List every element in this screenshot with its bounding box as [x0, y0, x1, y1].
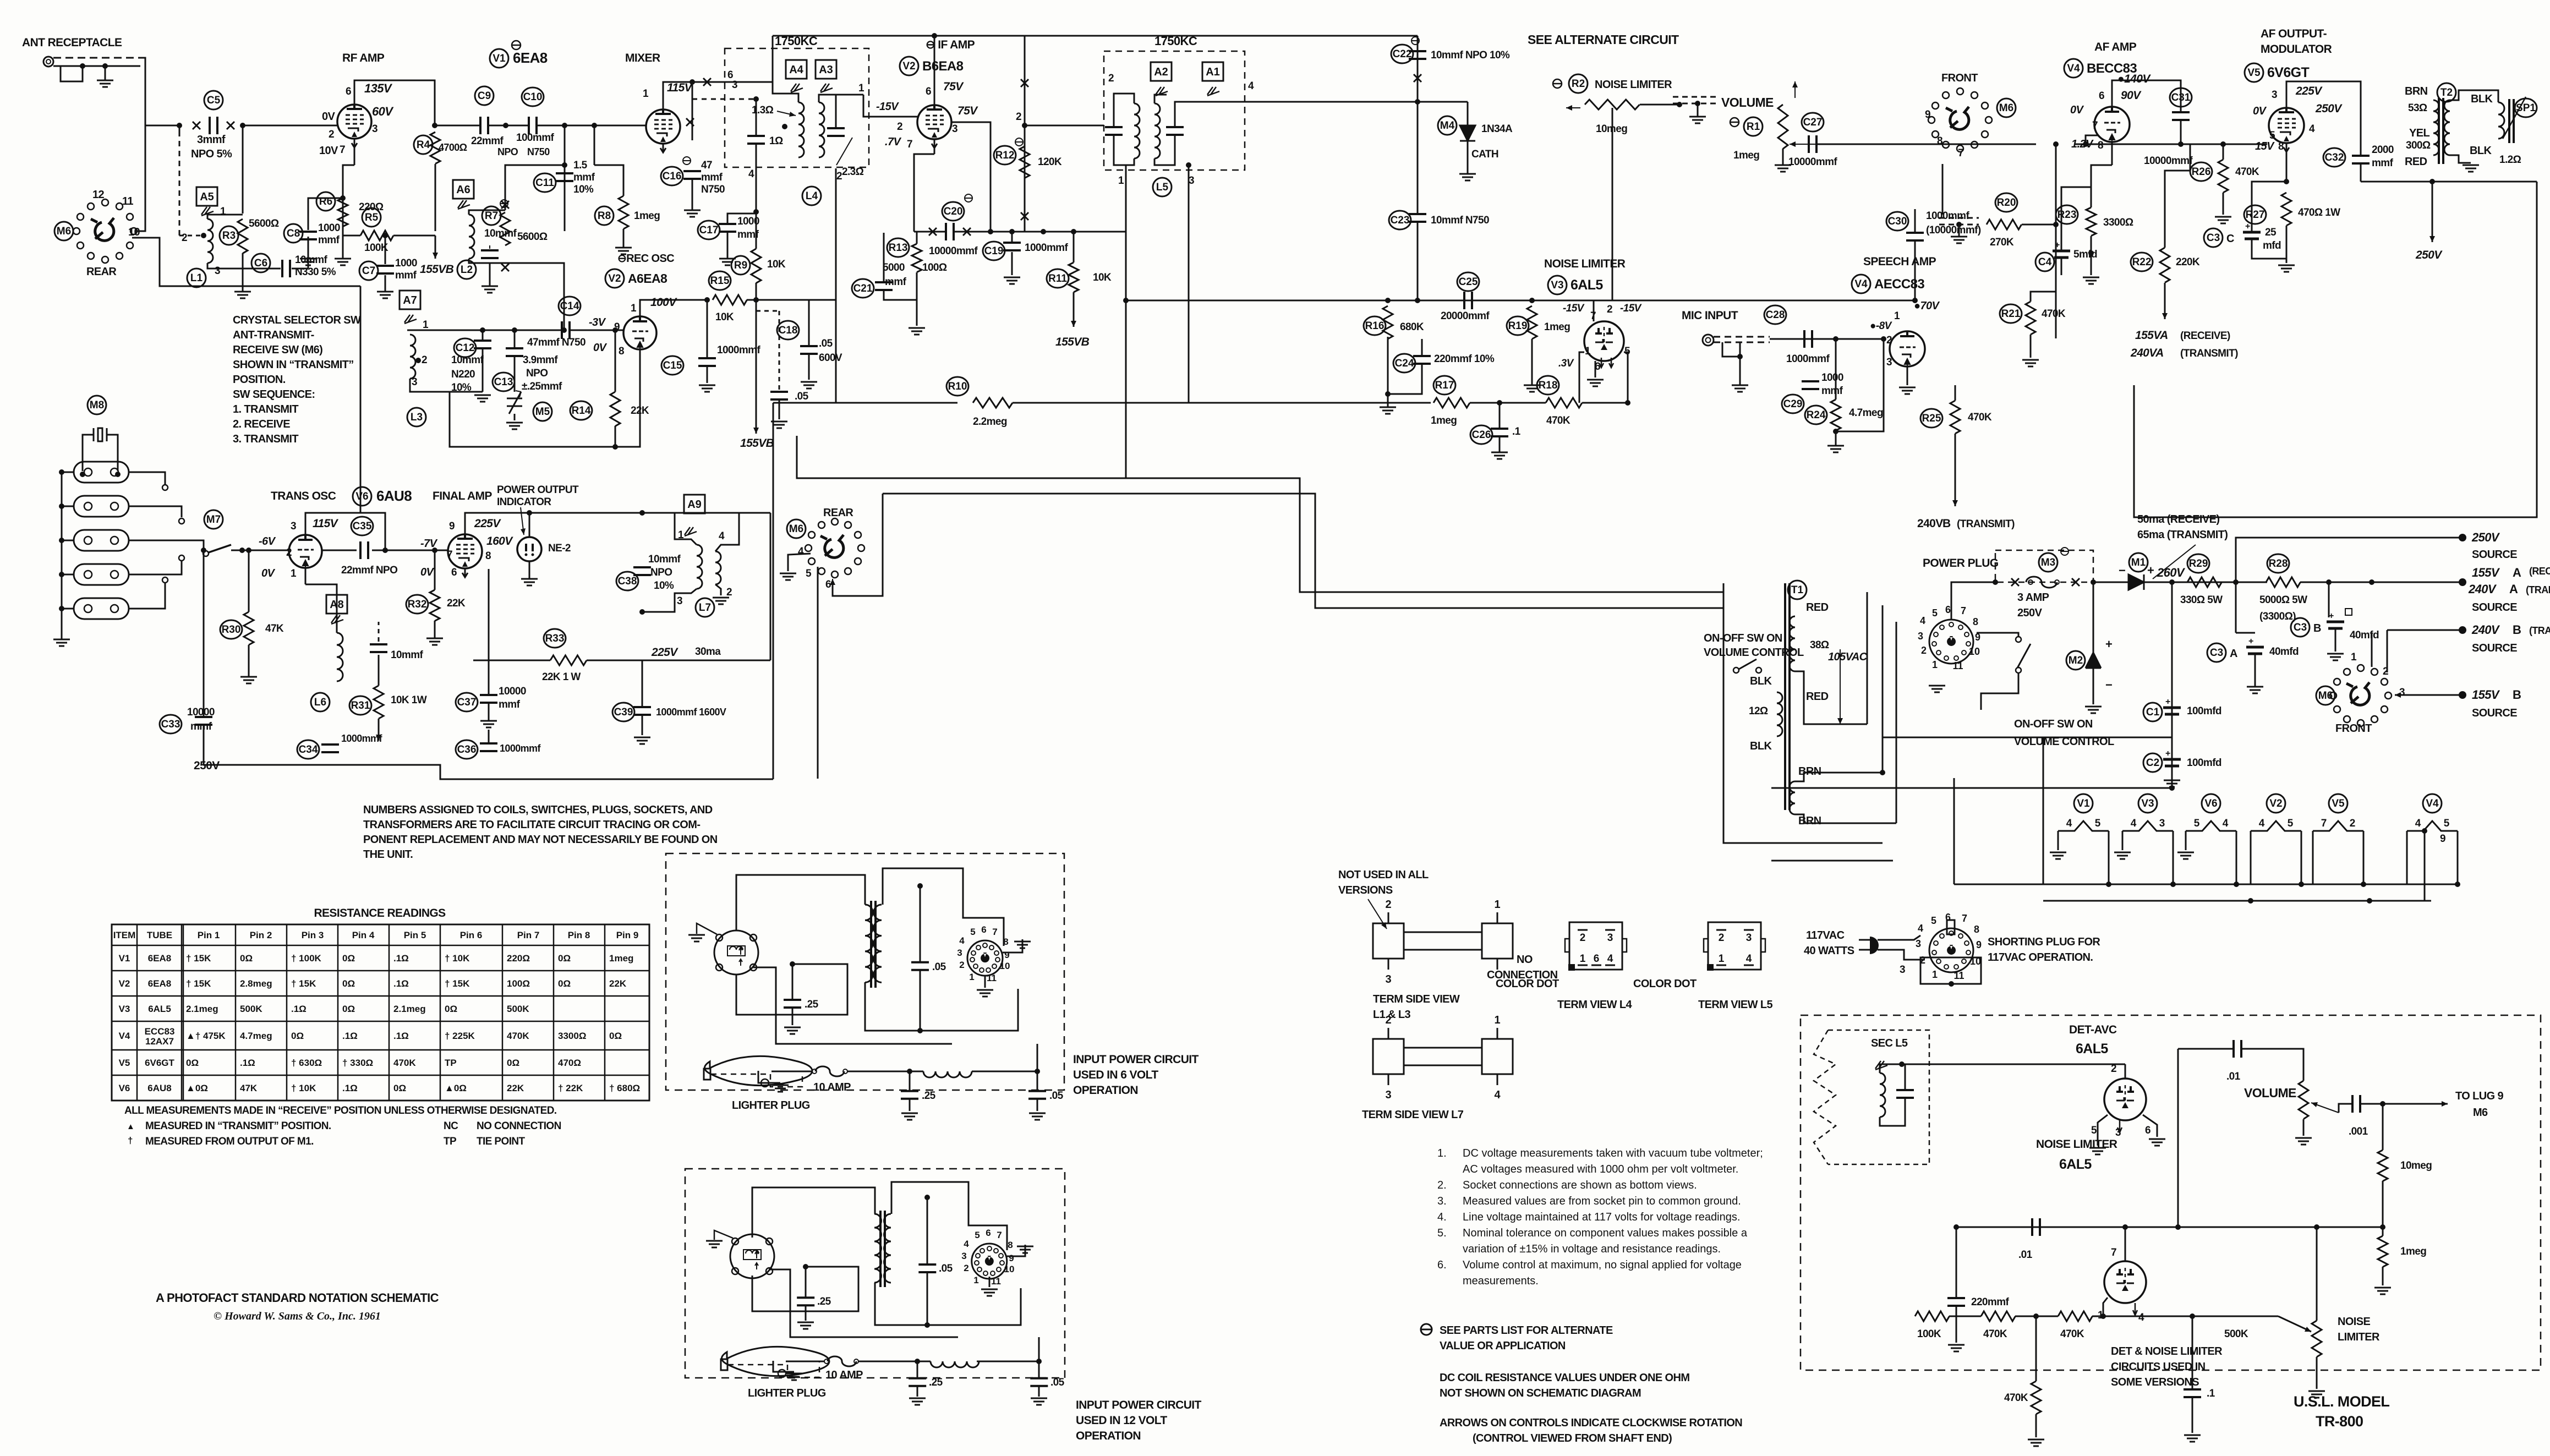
- svg-text:Pin 1: Pin 1: [198, 930, 220, 940]
- capacitor C20 label: [942, 202, 964, 221]
- fuse M3 label: [2039, 553, 2057, 572]
- capacitor C8 label: [284, 224, 303, 243]
- svg-text:10mmf: 10mmf: [391, 649, 424, 661]
- svg-text:0Ω: 0Ω: [393, 1083, 406, 1093]
- svg-text:.05: .05: [1049, 1090, 1064, 1102]
- svg-text:ON-OFF SW ON: ON-OFF SW ON: [1704, 632, 1782, 644]
- coil L1: [207, 219, 213, 263]
- svg-text:M6: M6: [2473, 1107, 2488, 1119]
- color dot: [1707, 964, 1714, 971]
- svg-text:-3V: -3V: [589, 316, 606, 329]
- wire crystal left: [62, 574, 74, 576]
- wire vib contact rail: [753, 967, 952, 1044]
- svg-text:3.9mmf: 3.9mmf: [523, 354, 558, 366]
- coil L2 label: [457, 260, 476, 279]
- svg-text:V6: V6: [119, 1083, 130, 1093]
- capacitor .25 lower: [901, 1091, 918, 1099]
- svg-text:20000mmf: 20000mmf: [1441, 310, 1490, 322]
- svg-text:0V: 0V: [2070, 104, 2084, 116]
- svg-text:470K: 470K: [1546, 415, 1571, 426]
- dashed box 1750KC L4: [725, 48, 869, 167]
- svg-text:6AL5: 6AL5: [148, 1004, 171, 1014]
- svg-text:5: 5: [970, 927, 975, 937]
- ground C2: [2164, 780, 2180, 787]
- wire long bus B: [883, 494, 1723, 608]
- wire C3C top: [2252, 182, 2286, 232]
- svg-text:C32: C32: [2325, 152, 2344, 163]
- svg-text:MEASURED IN “TRANSMIT” POSITIO: MEASURED IN “TRANSMIT” POSITION.: [145, 1120, 331, 1132]
- adjust arrow A6: [458, 200, 470, 209]
- tube V1 label: [490, 49, 508, 68]
- svg-text:SEC L5: SEC L5: [1871, 1037, 1908, 1049]
- svg-text:mmf: mmf: [499, 699, 521, 710]
- ground M4: [1459, 174, 1476, 180]
- svg-text:NO: NO: [1517, 954, 1533, 966]
- resistor R10 2.2meg: [973, 398, 1013, 408]
- svg-text:6: 6: [2145, 1125, 2150, 1136]
- capacitor C33 10000mmf: [195, 717, 212, 725]
- arrow contact 6: [832, 579, 833, 592]
- svg-text:M5: M5: [535, 406, 550, 418]
- wire grid tap V4B: [2086, 135, 2098, 144]
- svg-text:SOURCE: SOURCE: [2472, 601, 2517, 614]
- svg-text:160V: 160V: [486, 535, 513, 548]
- svg-text:22K: 22K: [447, 598, 466, 609]
- wire M8 right: [114, 435, 118, 471]
- adjust arrow A8: [331, 615, 343, 624]
- capacitor sec tank: [1896, 1090, 1914, 1098]
- svg-text:Pin 6: Pin 6: [460, 930, 483, 940]
- svg-text:1: 1: [858, 83, 864, 94]
- svg-text:155V: 155V: [2472, 566, 2500, 579]
- wire antenna lead: [53, 65, 140, 67]
- svg-text:2: 2: [2383, 666, 2388, 677]
- svg-text:R4: R4: [417, 139, 430, 151]
- capacitor .25: [797, 1298, 814, 1305]
- fuse M3 symbol: [2026, 577, 2057, 588]
- svg-text:NOISE LIMITER: NOISE LIMITER: [2036, 1138, 2117, 1151]
- svg-text:5: 5: [806, 568, 812, 579]
- svg-text:2: 2: [959, 960, 964, 970]
- resistor R29 label: [2187, 554, 2209, 573]
- socket power 11pin: [967, 940, 1003, 976]
- svg-text:22mmf: 22mmf: [471, 135, 504, 147]
- svg-text:0V: 0V: [2253, 105, 2267, 117]
- svg-text:.1Ω: .1Ω: [291, 1004, 307, 1014]
- svg-text:9: 9: [1009, 1253, 1014, 1263]
- svg-text:500K: 500K: [2224, 1328, 2248, 1340]
- svg-text:† 15K: † 15K: [445, 978, 470, 989]
- svg-text:C35: C35: [353, 521, 372, 532]
- svg-text:mmf: mmf: [573, 172, 595, 183]
- ground C15: [699, 385, 715, 392]
- svg-text:2: 2: [1385, 899, 1391, 911]
- svg-text:.1Ω: .1Ω: [393, 1031, 409, 1041]
- svg-text:115V: 115V: [667, 81, 693, 94]
- resistor R20 label: [1995, 193, 2017, 212]
- svg-text:V2: V2: [2269, 798, 2282, 809]
- coil L6: [337, 633, 343, 681]
- svg-text:C33: C33: [161, 719, 180, 730]
- wire lighter to fuse: [771, 1071, 812, 1072]
- resistor R13 100: [912, 244, 922, 272]
- svg-text:470K: 470K: [2235, 166, 2259, 178]
- svg-text:C23: C23: [1391, 215, 1410, 226]
- wire R11 top: [1073, 232, 1075, 262]
- svg-text:6: 6: [346, 86, 351, 97]
- resistor R28 label: [2267, 554, 2289, 573]
- coil L4 label: [802, 187, 821, 205]
- svg-text:250V: 250V: [2471, 530, 2500, 544]
- ground .05: [771, 422, 787, 428]
- resistor R31 10K 1W: [374, 686, 384, 719]
- heater V4 filament: [2407, 821, 2458, 831]
- ground M2: [2085, 707, 2102, 713]
- capacitor C9 label: [475, 86, 494, 105]
- arrows V3 cath: [1599, 358, 1613, 368]
- svg-text:M6: M6: [1999, 102, 2013, 114]
- svg-text:SOME VERSIONS: SOME VERSIONS: [2111, 1376, 2199, 1388]
- svg-text:3: 3: [961, 1251, 966, 1261]
- svg-text:LIMITER: LIMITER: [2338, 1331, 2380, 1343]
- svg-text:† 225K: † 225K: [445, 1031, 475, 1041]
- wire C30 top: [1914, 209, 1916, 232]
- misc M5 label: [533, 402, 552, 421]
- resistor R22 label: [2131, 253, 2153, 271]
- tube NL 6AL5: [2104, 1261, 2146, 1303]
- svg-text:BRN: BRN: [1798, 765, 1821, 778]
- svg-text:C20: C20: [944, 206, 963, 217]
- svg-text:0Ω: 0Ω: [558, 953, 571, 964]
- svg-text:4: 4: [964, 1239, 969, 1249]
- svg-text:2: 2: [1108, 73, 1114, 84]
- ground C37: [480, 721, 497, 727]
- svg-text:R18: R18: [1539, 380, 1558, 391]
- svg-text:−: −: [2105, 678, 2112, 692]
- wire R30 top: [248, 550, 250, 612]
- svg-text:RED: RED: [1806, 691, 1829, 703]
- svg-text:C15: C15: [663, 360, 682, 371]
- svg-text:100K: 100K: [1917, 1328, 1941, 1340]
- dashed box det/noise limiter: [1801, 1015, 2541, 1370]
- svg-text:6: 6: [926, 86, 931, 97]
- svg-text:1meg: 1meg: [634, 210, 660, 222]
- svg-text:A6EA8: A6EA8: [628, 271, 667, 286]
- svg-text:R31: R31: [351, 700, 370, 711]
- wire to socket right: [927, 1288, 1021, 1325]
- svg-text:-15V: -15V: [1563, 303, 1585, 314]
- wire down to AVC: [835, 300, 837, 403]
- wire rail 1340: [1883, 737, 2172, 738]
- svg-text:220Ω: 220Ω: [359, 201, 384, 213]
- wire vib gnd lead: [697, 923, 717, 934]
- svg-text:VOLUME: VOLUME: [1721, 95, 1774, 110]
- ground vibrator: [706, 1241, 723, 1247]
- svg-text:10: 10: [1000, 961, 1010, 971]
- svg-text:250V: 250V: [2017, 607, 2043, 619]
- svg-text:NPO: NPO: [650, 567, 672, 578]
- adjust arrow A1: [1207, 87, 1219, 96]
- svg-text:5.: 5.: [1437, 1227, 1447, 1239]
- capacitor C23 10mmf: [1409, 214, 1426, 222]
- node plate line: [639, 510, 645, 516]
- wire V4 pin9: [2424, 831, 2426, 901]
- wire cathode rail: [450, 349, 640, 447]
- svg-text:2: 2: [182, 232, 187, 244]
- svg-text:N220: N220: [451, 369, 475, 380]
- wire R17-R18: [1470, 402, 1546, 404]
- resistor R32 22K: [430, 590, 440, 621]
- svg-text:2: 2: [1921, 645, 1927, 656]
- svg-text:5: 5: [1932, 607, 1938, 618]
- wire C35 to V6B grid: [372, 550, 448, 551]
- svg-text:1meg: 1meg: [609, 953, 633, 964]
- svg-text:11: 11: [122, 195, 133, 207]
- svg-text:2: 2: [1719, 932, 1725, 944]
- svg-text:† 10K: † 10K: [445, 953, 470, 964]
- svg-text:RECEIVE SW (M6): RECEIVE SW (M6): [233, 344, 322, 356]
- svg-text:22K: 22K: [609, 978, 627, 989]
- svg-text:DC voltage measurements taken: DC voltage measurements taken with vacuu…: [1463, 1147, 1763, 1159]
- wire 250V source: [2236, 538, 2463, 582]
- term side view coil: [1373, 923, 1404, 959]
- svg-text:POWER OUTPUT: POWER OUTPUT: [497, 484, 579, 496]
- wire heater left vert: [1953, 778, 1955, 884]
- wire R26 top: [2223, 144, 2224, 160]
- wire R31 bottom: [378, 719, 380, 732]
- svg-text:-15V: -15V: [876, 101, 899, 113]
- wire sec top to socket: [883, 868, 1004, 946]
- svg-text:25: 25: [2265, 227, 2277, 238]
- capacitor C38 10mmf: [633, 567, 651, 575]
- svg-text:A3: A3: [819, 64, 833, 76]
- svg-text:4700Ω: 4700Ω: [439, 142, 467, 153]
- svg-text:R27: R27: [2246, 209, 2265, 221]
- svg-text:DET & NOISE LIMITER: DET & NOISE LIMITER: [2111, 1345, 2223, 1358]
- svg-text:C16: C16: [663, 171, 682, 182]
- svg-text:470Ω 1W: 470Ω 1W: [2298, 207, 2340, 218]
- svg-text:2. RECEIVE: 2. RECEIVE: [233, 418, 290, 430]
- crystal X4: [74, 564, 129, 585]
- arrow 155VB: [435, 236, 436, 259]
- svg-text:V4: V4: [119, 1031, 130, 1041]
- svg-text:2: 2: [422, 354, 427, 366]
- svg-text:(3300Ω): (3300Ω): [2259, 611, 2296, 622]
- wire T1 left loop: [1723, 583, 1883, 843]
- ground M5: [506, 423, 523, 429]
- svg-text:† 100K: † 100K: [291, 953, 322, 964]
- wire mic to C28: [1770, 338, 1850, 340]
- wire chain to 500K: [2103, 1316, 2278, 1317]
- svg-text:2.1meg: 2.1meg: [393, 1004, 426, 1014]
- svg-text:INDICATOR: INDICATOR: [497, 496, 551, 508]
- wire M7 out: [231, 550, 240, 551]
- svg-text:Pin 3: Pin 3: [302, 930, 324, 940]
- resistor 10meg: [2378, 1150, 2388, 1181]
- resistor R15 10K: [713, 295, 747, 305]
- wire col 1: [1867, 592, 1868, 724]
- svg-text:U.S.L. MODEL: U.S.L. MODEL: [2294, 1393, 2389, 1410]
- capacitor C36 1000mmf: [480, 743, 497, 751]
- wire heater bus 2: [2043, 900, 2431, 902]
- coil T1 sec top: [1790, 616, 1795, 671]
- svg-text:225V: 225V: [2295, 85, 2323, 97]
- heater V6 label: [2202, 794, 2220, 813]
- svg-text:C2: C2: [2146, 757, 2159, 769]
- capacitor C7 label: [359, 261, 378, 280]
- svg-text:1. TRANSMIT: 1. TRANSMIT: [233, 403, 298, 415]
- svg-text:A: A: [2230, 648, 2237, 660]
- svg-text:7: 7: [2111, 1247, 2116, 1258]
- adjust arrow A4: [791, 84, 803, 92]
- svg-text:12Ω: 12Ω: [1749, 705, 1768, 717]
- wire heater right: [2301, 831, 2302, 884]
- svg-text:DC COIL RESISTANCE VALUES: DC COIL RESISTANCE VALUES UNDER ONE OHM: [1440, 1372, 1689, 1384]
- svg-text:6.: 6.: [1437, 1259, 1447, 1271]
- svg-text:BRN: BRN: [1798, 815, 1821, 827]
- svg-text:4: 4: [1920, 615, 1925, 626]
- svg-text:4: 4: [798, 546, 804, 557]
- tube V6B final amp: [448, 534, 482, 568]
- color dot: [1568, 964, 1575, 971]
- capacitor C24 220mmf: [1413, 356, 1431, 364]
- wire vib to prim top: [736, 875, 865, 931]
- svg-text:7: 7: [1962, 913, 1967, 924]
- svg-text:3: 3: [1607, 932, 1613, 944]
- wire right rail down: [770, 513, 771, 660]
- svg-text:65ma (TRANSMIT): 65ma (TRANSMIT): [2137, 529, 2228, 541]
- svg-text:Measured values are from socke: Measured values are from socket pin to c…: [1463, 1195, 1741, 1207]
- svg-text:† 680Ω: † 680Ω: [609, 1083, 640, 1093]
- table column line: [136, 924, 138, 1101]
- socket power 11pin: [972, 1244, 1007, 1279]
- wire crystal bank bus: [61, 472, 63, 639]
- svg-text:270K: 270K: [1990, 237, 2014, 248]
- alt mark C16: [683, 157, 691, 165]
- svg-text:A5: A5: [200, 191, 214, 203]
- svg-text:SHORTING PLUG FOR: SHORTING PLUG FOR: [1988, 936, 2100, 948]
- heater V5 filament: [2313, 821, 2363, 831]
- switch on-off T1: [1733, 667, 1739, 673]
- svg-text:.1: .1: [1512, 426, 1521, 437]
- terminal box A7: [400, 291, 420, 309]
- svg-text:T2: T2: [2440, 87, 2453, 98]
- svg-text:10K: 10K: [767, 259, 786, 270]
- svg-text:SEE PARTS LIST FOR ALTERNA: SEE PARTS LIST FOR ALTERNATE: [1440, 1324, 1613, 1337]
- svg-text:INPUT POWER CIRCUIT: INPUT POWER CIRCUIT: [1073, 1053, 1199, 1066]
- svg-text:1Ω: 1Ω: [769, 135, 783, 147]
- capacitor C12 label: [454, 338, 476, 357]
- wire dashed tap L1: [179, 235, 203, 237]
- svg-text:V2: V2: [119, 978, 130, 989]
- ground lighter: [786, 1373, 802, 1380]
- ground C17: [719, 259, 736, 265]
- svg-text:†: †: [128, 1135, 133, 1146]
- svg-text:R2: R2: [1572, 78, 1585, 90]
- capacitor C18 label: [777, 321, 799, 340]
- svg-text:5: 5: [2194, 818, 2200, 829]
- svg-text:R28: R28: [2269, 558, 2288, 570]
- svg-text:-6V: -6V: [259, 535, 276, 548]
- svg-text:M2: M2: [2069, 655, 2083, 666]
- svg-text:R24: R24: [1807, 409, 1826, 421]
- tube V4A speech amp: [1890, 331, 1925, 366]
- capacitor 10mmf tank: [481, 250, 499, 258]
- wire to V5 grid: [2075, 144, 2267, 145]
- svg-text:.05: .05: [932, 961, 946, 973]
- see parts list mark: [1421, 1324, 1432, 1335]
- vibrator: [730, 1234, 774, 1278]
- ground volume shield: [1689, 117, 1706, 123]
- lamp NE-2: [517, 537, 541, 561]
- svg-text:.05: .05: [939, 1263, 953, 1274]
- capacitor C25 label: [1457, 272, 1479, 291]
- tube V2 label 2: [900, 57, 918, 75]
- svg-text:2: 2: [836, 171, 842, 182]
- svg-text:3mmf: 3mmf: [197, 134, 226, 146]
- arrow down: [378, 719, 380, 741]
- svg-text:1000: 1000: [318, 222, 340, 234]
- wire bus down to M6 sw: [135, 125, 145, 231]
- svg-text:-15V: -15V: [1620, 303, 1642, 314]
- ground pin9: [1014, 942, 1031, 948]
- svg-text:8: 8: [485, 550, 491, 562]
- svg-text:225V: 225V: [474, 517, 501, 530]
- tube V1B mixer: [646, 110, 680, 144]
- svg-text:105VAC: 105VAC: [1828, 651, 1868, 663]
- wire volume to C27 to AF amp: [1816, 144, 2036, 145]
- ground R27: [2278, 265, 2295, 272]
- svg-text:V3: V3: [119, 1004, 130, 1014]
- svg-text:NPO 5%: NPO 5%: [191, 148, 232, 160]
- resistor R24 label: [1805, 406, 1827, 424]
- svg-text:V4: V4: [2426, 798, 2439, 809]
- svg-text:0V: 0V: [593, 342, 608, 354]
- coil prim: [865, 905, 873, 982]
- svg-text:240V: 240V: [1917, 517, 1943, 530]
- svg-text:3: 3: [952, 123, 957, 135]
- svg-text:C37: C37: [457, 697, 477, 708]
- wire R14 top: [615, 330, 616, 392]
- svg-text:4: 4: [2309, 123, 2315, 135]
- svg-text:C19: C19: [984, 245, 1004, 257]
- wire choke out: [977, 1361, 1039, 1362]
- fuse 10amp: [816, 1066, 844, 1076]
- svg-text:40 WATTS: 40 WATTS: [1804, 945, 1854, 957]
- svg-text:R10: R10: [948, 381, 967, 392]
- terminal box A9: [684, 495, 705, 513]
- resistor R5 100K: [360, 231, 393, 240]
- capacitor C14 label: [559, 297, 581, 315]
- ground C26: [1491, 452, 1508, 459]
- svg-text:A2: A2: [1154, 66, 1168, 78]
- capacitor C28 label: [1764, 305, 1786, 324]
- wire socket pin1 gnd: [989, 1277, 991, 1287]
- svg-text:2: 2: [964, 1263, 968, 1273]
- capacitor C24 label: [1393, 354, 1415, 373]
- svg-text:.25: .25: [929, 1377, 943, 1388]
- wire dashed R20: [1939, 217, 1979, 219]
- svg-text:M3: M3: [2041, 557, 2055, 568]
- capacitor C32 label: [2323, 148, 2345, 167]
- wire crystal left: [62, 472, 74, 473]
- svg-text:▲: ▲: [127, 1122, 135, 1131]
- heater V2 label: [2267, 794, 2285, 813]
- svg-text:5: 5: [975, 1230, 979, 1240]
- svg-text:TERM SIDE VIEW L7: TERM SIDE VIEW L7: [1362, 1109, 1464, 1121]
- svg-text:0Ω: 0Ω: [445, 1004, 457, 1014]
- svg-text:C3: C3: [2207, 232, 2220, 244]
